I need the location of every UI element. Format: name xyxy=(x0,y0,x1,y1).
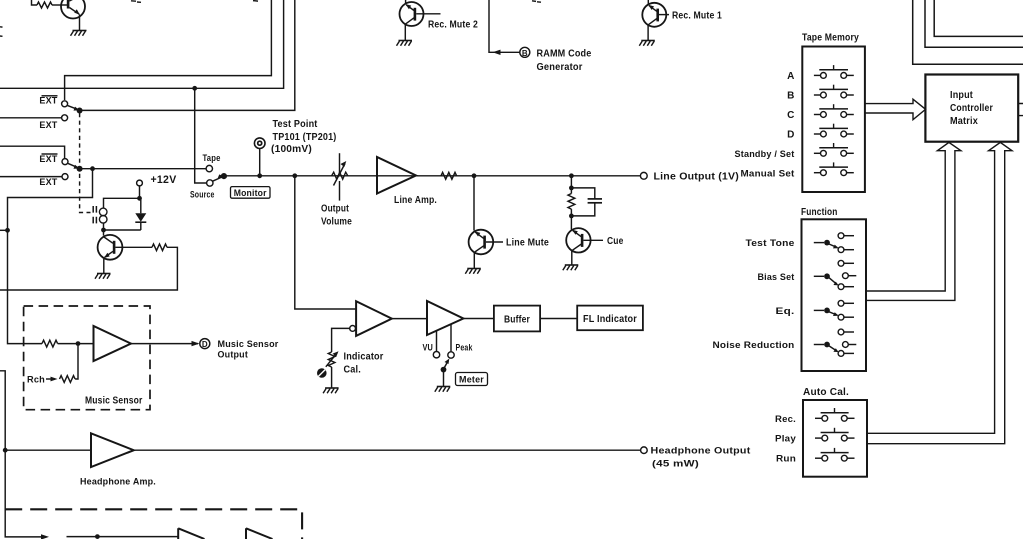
ground (Cue emitter) xyxy=(563,265,579,270)
block Function xyxy=(802,219,867,371)
wire (indicator amp to meter amp) xyxy=(392,318,427,320)
transistor Q (Cue) xyxy=(566,228,603,264)
wire (to headphone amp) xyxy=(5,449,91,451)
hollow arrow (Tape Memory to ICM) xyxy=(865,99,926,120)
transistor Q (relay driver) xyxy=(98,235,152,273)
node (branch to indicator chain) xyxy=(292,173,297,178)
node (coil bottom junction) xyxy=(101,228,106,233)
node (RC top) xyxy=(569,186,574,191)
svg-text:EXT: EXT xyxy=(39,96,57,106)
relay armature marks xyxy=(93,206,96,223)
wire (music sensor output with arrow) xyxy=(131,341,200,346)
wire (coil bottom) xyxy=(103,223,105,230)
svg-text:Cal.: Cal. xyxy=(344,364,362,375)
wire (ICM right tab) xyxy=(1018,104,1023,116)
node (Rch mix junction) xyxy=(76,341,81,346)
wire (to driver collector) xyxy=(103,230,105,236)
switch (Monitor) lever and common node xyxy=(213,173,227,181)
svg-text:Headphone Amp.: Headphone Amp. xyxy=(80,477,156,487)
inverting input circle xyxy=(350,326,356,332)
switch S2 contact EXT-bar xyxy=(39,154,68,165)
switch (Eq.) xyxy=(814,300,854,320)
transistor Q-top-left (cut off at top) xyxy=(32,0,86,30)
block Auto Cal. xyxy=(803,400,867,477)
svg-text:Line Amp.: Line Amp. xyxy=(394,195,437,206)
pushbutton Manual Set xyxy=(814,162,854,175)
label Rch with arrow xyxy=(27,375,58,385)
wire (S2 common to Tape contact) xyxy=(82,168,206,170)
svg-text:TP101 (TP201): TP101 (TP201) xyxy=(273,132,337,143)
svg-text:D: D xyxy=(202,340,208,349)
wire (relay top rail) xyxy=(104,198,140,208)
svg-text:Tape: Tape xyxy=(203,153,221,163)
svg-text:Test Point: Test Point xyxy=(273,119,318,130)
svg-text:(100mV): (100mV) xyxy=(271,144,312,155)
wire (stub to EXT-bar 2 contact) xyxy=(0,146,65,158)
node (cue branch) xyxy=(569,173,574,178)
svg-text:Play: Play xyxy=(775,434,796,444)
pushbutton Play xyxy=(815,428,855,441)
wire (buffer to FL indicator) xyxy=(540,318,577,320)
node (RC bottom) xyxy=(569,214,574,219)
op-amp (indicator driver) xyxy=(356,301,392,336)
switch (Noise Reduction) xyxy=(814,329,857,356)
block Buffer xyxy=(494,306,540,332)
test point TP101 xyxy=(254,138,265,178)
wire (nested corner, top right inner) xyxy=(934,0,1023,36)
svg-text:(45 mW): (45 mW) xyxy=(652,458,699,468)
dashed block (bottom, cut off) xyxy=(5,509,302,539)
transistor Q (Rec. Mute 1) xyxy=(642,0,669,40)
wire (headphone output line) xyxy=(134,449,641,451)
capacitor (cue RC) xyxy=(571,188,602,216)
wire (relay feed down and left) xyxy=(8,169,93,344)
svg-text:Cue: Cue xyxy=(607,236,624,247)
node (junction on Source line) xyxy=(192,86,197,91)
wire (nested corner, top right outer) xyxy=(913,0,1023,64)
svg-text:C: C xyxy=(787,110,794,121)
svg-text:Rec. Mute 1: Rec. Mute 1 xyxy=(672,11,722,22)
node (line mute branch) xyxy=(472,173,477,178)
svg-text:Monitor: Monitor xyxy=(234,188,267,198)
svg-text:Auto Cal.: Auto Cal. xyxy=(803,387,849,398)
pushbutton Run xyxy=(815,448,855,461)
wire (down to line mute) xyxy=(473,176,475,231)
resistor (driver base) xyxy=(152,244,167,251)
node (bottom junction) xyxy=(95,534,100,539)
switch (Test Tone) xyxy=(814,233,854,253)
ground (Rec. Mute 2) xyxy=(397,41,413,46)
potentiometer (Output Volume) xyxy=(332,153,348,200)
op-amp (bottom 2, cut off) xyxy=(246,528,273,539)
block FL Indicator xyxy=(577,306,643,331)
svg-text:VU: VU xyxy=(423,342,434,352)
pushbutton D xyxy=(814,124,854,137)
svg-text:B: B xyxy=(522,49,528,58)
op-amp (Headphone Amp.) xyxy=(91,433,134,467)
wire (nested corner, top right middle) xyxy=(925,0,1023,47)
ground (Line Mute emitter) xyxy=(465,269,481,274)
wire (Peak tap) xyxy=(450,324,452,352)
wire (bottom left arrow) xyxy=(5,531,49,539)
wire (Source contact riser) xyxy=(195,88,207,183)
op-amp (Line Amp.) xyxy=(377,157,416,194)
svg-text:Function: Function xyxy=(801,207,838,218)
svg-text:D: D xyxy=(787,130,794,141)
wire (bottom line into amp) xyxy=(67,536,179,538)
ground (top-left transistor emitter) xyxy=(71,31,87,36)
svg-text:EXT: EXT xyxy=(39,120,57,130)
wire (meter amp to buffer) xyxy=(463,318,494,320)
svg-text:Bias Set: Bias Set xyxy=(758,272,795,282)
switch S1 contact EXT-bar xyxy=(39,96,67,107)
svg-text:Output: Output xyxy=(321,204,349,215)
wire (EXT-bar 1 contact riser to top) xyxy=(65,0,272,100)
node (stub junction on left feed) xyxy=(5,228,10,233)
pushbutton B xyxy=(814,85,854,98)
node D (music sensor output) circled letter xyxy=(200,339,210,350)
wire (headphone feed from left) xyxy=(0,371,5,531)
relay coil K1 xyxy=(99,208,107,223)
diode D1 (relay clamp) xyxy=(135,198,146,230)
resistor (cue RC) xyxy=(568,188,575,216)
pushbutton A xyxy=(814,65,854,78)
svg-text:Source: Source xyxy=(190,189,215,199)
label Monitor (boxed) xyxy=(231,187,271,199)
svg-text:Generator: Generator xyxy=(537,62,583,73)
resistor (music sensor input) xyxy=(42,340,58,347)
wire (relay bottom rail) xyxy=(104,229,141,231)
wire (Rch to junction) xyxy=(75,346,78,379)
potentiometer (Indicator Cal.) xyxy=(326,351,339,387)
svg-text:EXT: EXT xyxy=(39,154,57,164)
switch S1 lever and common node xyxy=(67,105,83,113)
node B (RAMM) circled letter xyxy=(520,47,530,58)
svg-text:Tape Memory: Tape Memory xyxy=(802,33,859,44)
svg-text:Volume: Volume xyxy=(321,217,352,228)
switch S2 contact EXT xyxy=(0,174,68,188)
ground (relay driver emitter) xyxy=(95,274,111,279)
ground (meter switch) xyxy=(435,387,451,392)
wire (down to cue transistor) xyxy=(570,216,572,230)
svg-text:Indicator: Indicator xyxy=(344,351,384,362)
pushbutton Standby/Set xyxy=(814,143,854,156)
ground (Rec. Mute 1) xyxy=(639,41,655,46)
contact VU xyxy=(433,352,439,358)
hollow arrow (Function to ICM) xyxy=(866,142,961,300)
ground (indicator cal) xyxy=(323,388,339,393)
node (junction to relay feed) xyxy=(90,166,95,171)
transistor Q (Rec. Mute 2) xyxy=(400,0,441,40)
svg-text:Rch: Rch xyxy=(27,375,45,385)
contact Peak xyxy=(448,352,454,358)
block Input Controller Matrix xyxy=(925,75,1018,142)
svg-text:EXT: EXT xyxy=(39,177,57,187)
resistor (line output series) xyxy=(441,172,457,179)
cut marks at top edge xyxy=(0,1,541,37)
svg-text:Standby / Set: Standby / Set xyxy=(735,149,795,159)
svg-text:Music Sensor: Music Sensor xyxy=(218,339,279,349)
svg-text:RAMM Code: RAMM Code xyxy=(537,48,592,59)
svg-text:Matrix: Matrix xyxy=(950,116,978,127)
svg-text:Noise Reduction: Noise Reduction xyxy=(713,340,795,350)
svg-text:B: B xyxy=(787,91,794,102)
terminal Line Output xyxy=(640,172,647,179)
wire (main signal line) xyxy=(227,175,641,177)
svg-text:A: A xyxy=(787,71,794,82)
svg-text:Input: Input xyxy=(950,90,973,101)
hollow arrow (Auto Cal to ICM) xyxy=(867,142,1012,443)
transistor Q (Line Mute) xyxy=(469,230,503,268)
svg-text:Line Output (1V): Line Output (1V) xyxy=(654,172,740,183)
svg-text:Manual Set: Manual Set xyxy=(741,168,795,178)
svg-text:Buffer: Buffer xyxy=(504,314,530,325)
block Tape Memory xyxy=(802,47,865,193)
svg-text:Rec.: Rec. xyxy=(775,414,796,424)
node (headphone amp input junction) xyxy=(3,448,8,453)
wire (stub to left edge) xyxy=(0,229,8,231)
terminal Headphone Output xyxy=(641,447,648,454)
terminal +12V xyxy=(137,180,143,186)
wire (VU tap) xyxy=(436,331,438,352)
svg-text:Controller: Controller xyxy=(950,103,993,114)
svg-text:Eq.: Eq. xyxy=(776,306,795,316)
wire (branch down to indicator amp) xyxy=(295,176,356,309)
switch (Bias Set) xyxy=(814,260,857,289)
switch (Monitor) contact Tape xyxy=(203,153,221,172)
resistor (Rch input) xyxy=(60,376,76,383)
svg-text:FL Indicator: FL Indicator xyxy=(583,314,637,325)
svg-text:Output: Output xyxy=(218,350,249,360)
wire (relay mechanical link, dashed) xyxy=(80,113,91,213)
trimmer disc xyxy=(317,368,327,378)
svg-text:+12V: +12V xyxy=(151,174,177,186)
wire (to amp input) xyxy=(58,343,94,345)
svg-text:Peak: Peak xyxy=(456,342,474,352)
wire (inverting input to cal pot) xyxy=(332,328,350,352)
wire (down to RC) xyxy=(570,176,572,188)
svg-text:Music Sensor: Music Sensor xyxy=(85,395,143,406)
wire (line to Source contact riser) xyxy=(0,0,284,88)
pushbutton Rec. xyxy=(815,408,855,421)
label Meter (boxed) xyxy=(456,373,488,386)
op-amp (meter driver) xyxy=(427,301,463,335)
svg-text:Run: Run xyxy=(776,454,796,464)
svg-text:Headphone Output: Headphone Output xyxy=(651,446,751,456)
dashed block (Music Sensor) xyxy=(24,306,150,410)
svg-text:Rec. Mute 2: Rec. Mute 2 xyxy=(428,20,478,31)
wire from RAMM code generator xyxy=(489,0,520,55)
wire (+12V drop) xyxy=(139,186,141,198)
switch S2 lever and common node xyxy=(67,163,82,172)
switch (Monitor) contact Source xyxy=(190,180,215,200)
switch (Meter) lever and common xyxy=(441,359,450,387)
wire (monitor switch 1 common to top boxes) xyxy=(82,0,295,110)
node (relay top rail junction) xyxy=(137,196,142,201)
svg-text:Test Tone: Test Tone xyxy=(746,238,795,248)
pushbutton C xyxy=(814,104,854,117)
op-amp (bottom, cut off) xyxy=(178,528,204,539)
svg-text:Meter: Meter xyxy=(459,374,484,384)
switch S1 contact EXT xyxy=(0,115,68,130)
svg-text:Line Mute: Line Mute xyxy=(506,237,549,248)
op-amp (music sensor) xyxy=(94,326,132,361)
wire (base resistor to bottom rail) xyxy=(0,247,177,290)
